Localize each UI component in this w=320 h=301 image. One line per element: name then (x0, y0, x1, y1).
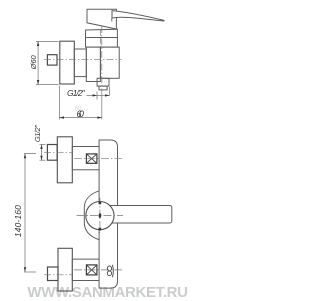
svg-text:Ø60: Ø60 (29, 54, 38, 70)
svg-text:G1/2": G1/2" (67, 88, 86, 98)
svg-text:G1/2": G1/2" (33, 125, 42, 142)
svg-text:60: 60 (75, 106, 82, 113)
svg-text:140-160: 140-160 (13, 205, 23, 237)
svg-text:WWW.SANMARKET.RU: WWW.SANMARKET.RU (27, 284, 187, 301)
